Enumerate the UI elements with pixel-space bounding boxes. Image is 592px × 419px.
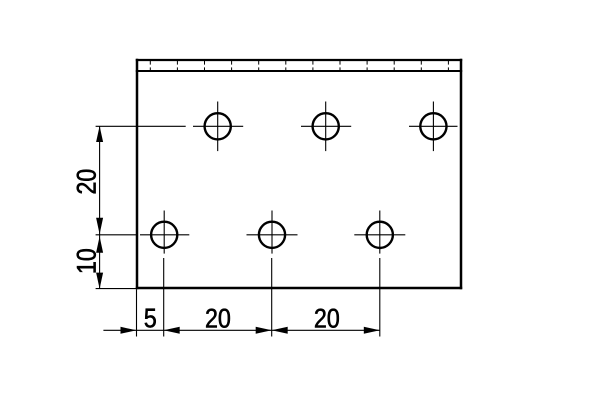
centerline H3 vertical: [432, 102, 434, 152]
centerline H4 vertical: [163, 211, 165, 254]
arrow up at bottom row: [96, 236, 103, 252]
centerlines: [140, 102, 458, 254]
centerline H3 horizontal: [409, 125, 458, 127]
hole H6 (bottom row right): [367, 222, 393, 248]
hole H4 (bottom row left): [151, 222, 177, 248]
label 20 (bottom second): [315, 309, 339, 328]
label 10 (vertical left): [77, 249, 96, 272]
extension line plate bottom (left): [96, 288, 137, 290]
hole H5 (bottom row middle): [259, 222, 285, 248]
extension line plate left edge (bottom): [136, 290, 138, 337]
arrow left at H5: [272, 327, 288, 334]
extension line top hole row (left): [96, 125, 186, 127]
bend line (strip bottom edge): [136, 70, 462, 72]
arrow right at H5: [256, 327, 272, 334]
centerline H1 horizontal: [193, 125, 243, 127]
centerline H1 vertical: [217, 102, 219, 152]
hole H2 (top row middle): [313, 113, 339, 139]
strip tick marks: [150, 61, 448, 72]
centerline H4 horizontal: [140, 234, 189, 236]
arrow right at H6: [364, 327, 380, 334]
hole H1 (top row left): [205, 113, 231, 139]
extension line bottom hole row (left): [96, 234, 136, 236]
hole H3 (top row right): [420, 113, 446, 139]
arrow up at top row: [96, 126, 103, 142]
label 20 (bottom first): [206, 309, 230, 328]
arrow left at H4: [164, 327, 180, 334]
extension lines: [96, 126, 380, 336]
centerline H2 vertical: [325, 102, 327, 152]
centerline H6 horizontal: [354, 234, 405, 236]
centerline H5 vertical: [271, 211, 273, 254]
dimension line horizontal (bottom): [103, 329, 379, 331]
extension line hole H5 (bottom): [271, 258, 273, 337]
arrow down at bottom row: [96, 218, 103, 234]
extension line hole H4 (bottom): [163, 258, 165, 337]
label 5 (bottom): [145, 309, 156, 328]
label 20 (vertical left): [77, 170, 96, 194]
dimension line vertical (left): [99, 126, 101, 288]
centerline H2 horizontal: [301, 125, 351, 127]
centerline H5 horizontal: [247, 234, 298, 236]
plate outline: [136, 59, 462, 289]
extension line hole H6 (bottom): [379, 258, 381, 337]
arrow right at plate left edge: [121, 327, 137, 334]
arrow down at plate bottom: [96, 273, 103, 289]
centerline H6 vertical: [379, 211, 381, 254]
arrowheads: [96, 126, 380, 334]
